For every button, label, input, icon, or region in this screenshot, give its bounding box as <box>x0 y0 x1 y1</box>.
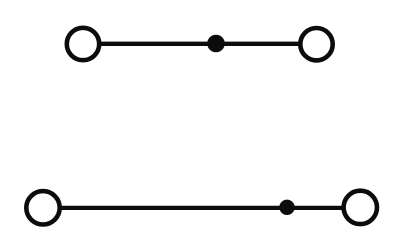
node junction lower <box>279 200 294 215</box>
wire upper level <box>83 42 317 46</box>
terminal circle upper-right <box>300 28 332 60</box>
terminal circle upper-left <box>67 28 99 60</box>
terminal circle lower-right <box>344 191 377 224</box>
wire lower level <box>43 206 360 210</box>
terminal circle lower-left <box>26 191 59 224</box>
node junction upper <box>207 35 225 53</box>
